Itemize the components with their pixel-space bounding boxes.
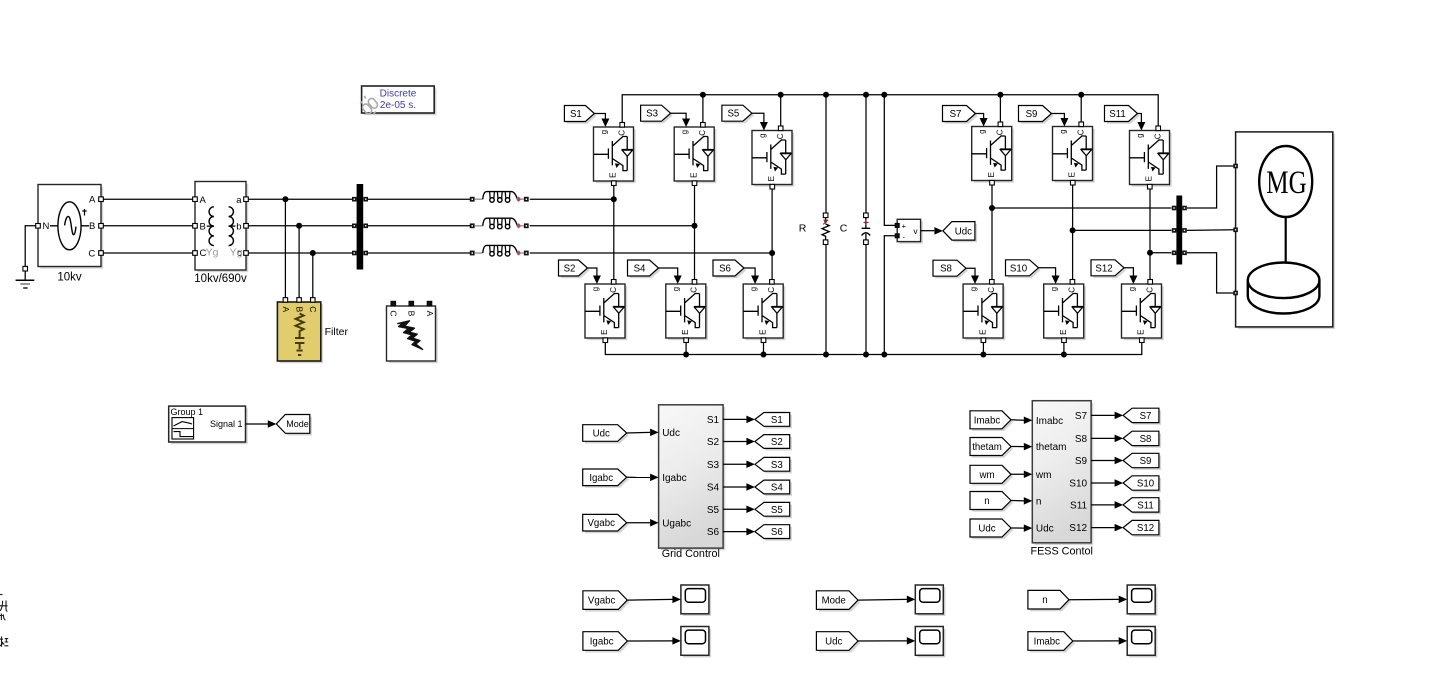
svg-text:E: E <box>600 330 609 335</box>
svg-text:C: C <box>308 306 318 312</box>
svg-text:C: C <box>617 130 626 136</box>
svg-text:S3: S3 <box>707 460 720 471</box>
svg-text:g: g <box>758 133 767 137</box>
svg-text:Mode: Mode <box>286 419 309 429</box>
svg-text:C: C <box>389 310 399 316</box>
svg-text:B: B <box>295 306 305 312</box>
svg-text:S5: S5 <box>707 505 720 516</box>
svg-text:Udc: Udc <box>593 428 610 439</box>
svg-text:Filter: Filter <box>325 326 349 338</box>
svg-text:C: C <box>840 223 848 235</box>
svg-text:Group 1: Group 1 <box>171 407 204 417</box>
svg-text:a: a <box>236 195 242 206</box>
svg-text:Udc: Udc <box>825 636 842 647</box>
svg-text:C: C <box>690 287 699 293</box>
svg-text:2e-05 s.: 2e-05 s. <box>380 100 416 111</box>
svg-text:Igabc: Igabc <box>662 473 686 484</box>
svg-text:wm: wm <box>1035 470 1052 481</box>
svg-text:Imabc: Imabc <box>1034 636 1061 647</box>
svg-text:Udc: Udc <box>955 226 972 237</box>
svg-text:Udc: Udc <box>662 428 680 439</box>
svg-text:n: n <box>1042 595 1047 606</box>
svg-text:g: g <box>978 129 987 133</box>
svg-text:g: g <box>1050 287 1059 291</box>
svg-text:S11: S11 <box>1137 500 1154 511</box>
svg-text:10kv: 10kv <box>57 271 82 283</box>
svg-text:C: C <box>88 248 95 259</box>
svg-text:B: B <box>200 221 206 232</box>
svg-text:C: C <box>1153 133 1162 139</box>
svg-text:E: E <box>681 330 690 335</box>
svg-text:S2: S2 <box>771 437 783 448</box>
svg-text:E: E <box>1145 176 1154 181</box>
svg-text:n: n <box>984 496 989 507</box>
svg-text:n: n <box>1036 497 1042 508</box>
svg-text:g: g <box>680 130 689 134</box>
svg-text:S5: S5 <box>727 109 739 120</box>
svg-text:Grid Control: Grid Control <box>662 548 720 560</box>
svg-text:S8: S8 <box>940 264 952 275</box>
svg-text:S10: S10 <box>1137 478 1155 489</box>
svg-text:C: C <box>767 287 776 293</box>
svg-text:S4: S4 <box>634 263 646 274</box>
svg-text:S4: S4 <box>771 482 783 493</box>
svg-text:Yg: Yg <box>206 246 219 258</box>
svg-text:S1: S1 <box>707 415 720 426</box>
svg-text:thetam: thetam <box>972 442 1002 453</box>
svg-text:Udc: Udc <box>978 523 995 534</box>
svg-text:S12: S12 <box>1069 523 1087 534</box>
svg-text:C: C <box>776 133 785 139</box>
svg-text:S9: S9 <box>1026 109 1038 120</box>
svg-text:g: g <box>1135 133 1144 137</box>
svg-text:A: A <box>89 195 96 206</box>
svg-text:+: + <box>902 222 907 231</box>
svg-text:S8: S8 <box>1140 434 1152 445</box>
svg-text:C: C <box>1145 287 1154 293</box>
svg-text:MG: MG <box>1266 165 1306 201</box>
svg-text:thetam: thetam <box>1036 442 1067 453</box>
svg-text:C: C <box>1068 287 1077 293</box>
svg-text:S1: S1 <box>570 109 582 120</box>
svg-text:Ugabc: Ugabc <box>662 518 691 529</box>
svg-text:S2: S2 <box>707 437 720 448</box>
svg-text:E: E <box>987 172 996 177</box>
svg-text:A: A <box>425 311 435 317</box>
svg-text:S7: S7 <box>1075 411 1088 422</box>
svg-text:10kv/690v: 10kv/690v <box>194 273 247 285</box>
svg-text:Udc: Udc <box>1036 524 1054 535</box>
svg-text:S3: S3 <box>646 109 658 120</box>
svg-text:S8: S8 <box>1075 434 1088 445</box>
svg-text:Discrete: Discrete <box>380 89 417 100</box>
svg-text:Igabc: Igabc <box>589 473 613 484</box>
svg-text:Signal 1: Signal 1 <box>210 419 243 429</box>
svg-text:g: g <box>591 287 600 291</box>
svg-text:S3: S3 <box>771 460 783 471</box>
svg-text:g: g <box>672 287 681 291</box>
svg-text:g: g <box>1127 287 1136 291</box>
svg-text:E: E <box>758 330 767 335</box>
svg-text:FESS Contol: FESS Contol <box>1030 546 1092 558</box>
svg-text:C: C <box>609 287 618 293</box>
svg-text:C: C <box>1076 129 1085 135</box>
svg-text:wm: wm <box>978 470 994 481</box>
svg-text:E: E <box>1068 172 1077 177</box>
svg-text:E: E <box>1059 330 1068 335</box>
svg-text:Imabc: Imabc <box>1036 416 1063 427</box>
svg-text:g: g <box>1058 129 1067 133</box>
svg-text:C: C <box>698 130 707 136</box>
svg-text:S12: S12 <box>1137 523 1154 534</box>
svg-text:S6: S6 <box>719 263 731 274</box>
svg-text:S7: S7 <box>1140 411 1152 422</box>
svg-text:Mode: Mode <box>822 596 846 607</box>
svg-text:C: C <box>987 287 996 293</box>
svg-text:Vgabc: Vgabc <box>588 596 616 607</box>
svg-text:S7: S7 <box>950 109 962 120</box>
svg-text:E: E <box>689 173 698 178</box>
svg-text:S11: S11 <box>1109 109 1126 120</box>
svg-text:N: N <box>43 221 50 232</box>
svg-text:S6: S6 <box>771 527 783 538</box>
svg-text:E: E <box>1137 330 1146 335</box>
svg-text:Igabc: Igabc <box>590 636 614 647</box>
svg-text:Vgabc: Vgabc <box>587 518 615 529</box>
svg-text:B: B <box>89 221 95 232</box>
svg-text:C: C <box>996 129 1005 135</box>
svg-text:E: E <box>767 176 776 181</box>
svg-text:S5: S5 <box>771 505 783 516</box>
svg-text:S4: S4 <box>707 483 720 494</box>
svg-text:E: E <box>978 330 987 335</box>
svg-text:S1: S1 <box>771 415 783 426</box>
svg-text:E: E <box>609 173 618 178</box>
svg-text:S11: S11 <box>1070 501 1087 512</box>
svg-text:g: g <box>969 287 978 291</box>
svg-text:S2: S2 <box>564 263 576 274</box>
svg-text:S6: S6 <box>707 527 720 538</box>
svg-text:g: g <box>599 130 608 134</box>
svg-text:S9: S9 <box>1075 456 1088 467</box>
svg-text:B: B <box>407 311 417 317</box>
svg-text:R: R <box>799 223 807 235</box>
svg-text:A: A <box>200 195 207 206</box>
svg-text:A: A <box>281 306 291 312</box>
svg-text:b: b <box>236 221 241 232</box>
svg-text:S10: S10 <box>1010 263 1028 274</box>
svg-text:Imabc: Imabc <box>974 415 1001 426</box>
svg-text:S9: S9 <box>1140 456 1152 467</box>
svg-text:S12: S12 <box>1095 263 1112 274</box>
svg-text:Yg: Yg <box>230 246 243 258</box>
svg-text:g: g <box>749 287 758 291</box>
svg-text:S10: S10 <box>1069 479 1087 490</box>
